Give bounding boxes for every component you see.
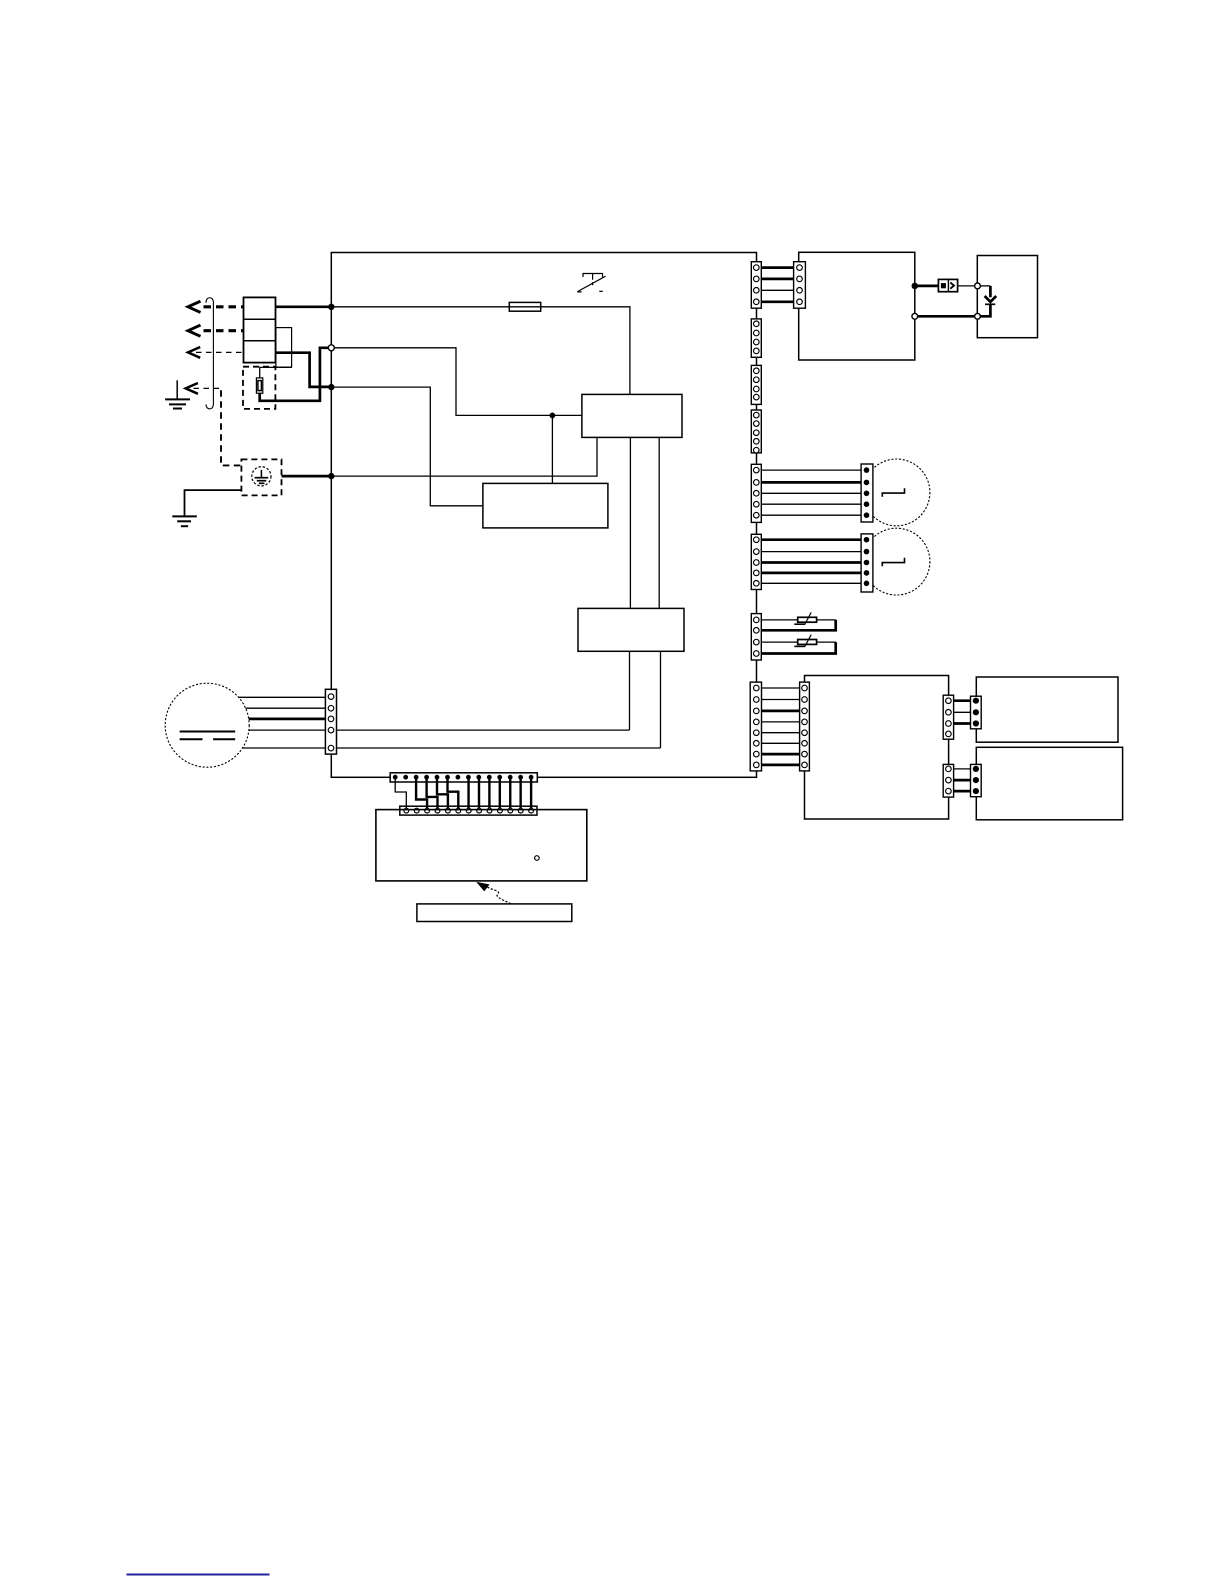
wire thermal fuse to spark unit xyxy=(958,285,978,287)
display header pads (open) xyxy=(404,808,534,813)
callout label box xyxy=(417,904,572,922)
node dot on ignition box edge xyxy=(912,283,919,290)
node dot PE on PCB edge xyxy=(328,473,334,479)
wire left dot to inner box2 left xyxy=(331,387,483,506)
wire ignition box to thermal fuse xyxy=(915,285,939,288)
wire line-fuse top to filter box xyxy=(260,367,292,378)
mating connector on ignition box xyxy=(794,262,806,309)
board-edge header strip (14 pads) xyxy=(390,773,537,782)
supply arrow 3 (N) xyxy=(188,347,244,358)
supply arrow 4 (PE) xyxy=(186,383,221,394)
spark gap branch xyxy=(978,286,997,316)
thermal cutout symbol T xyxy=(577,274,605,292)
dashed earth terminal box xyxy=(241,459,281,495)
connector CN-C on PCB edge xyxy=(751,365,761,404)
wires connector A to ignition box xyxy=(756,268,799,302)
ribbon wire 1 xyxy=(395,777,406,810)
ribbon wire 10 xyxy=(499,777,501,810)
wire mains L terminal to PCB xyxy=(276,305,332,308)
ribbon wire 5 xyxy=(437,777,448,810)
open node on ignition box edge xyxy=(912,313,918,319)
protective earth symbol PE xyxy=(252,467,271,486)
connector CN-G on PCB edge xyxy=(751,614,761,660)
supply arrow 1 (L) xyxy=(188,301,244,312)
display / keypad PCB box xyxy=(376,810,587,881)
callout squiggle leader xyxy=(488,887,511,904)
thermistor RT1 loop xyxy=(756,612,835,630)
wire ignition box to spark return xyxy=(915,315,978,318)
open node on spark box edge (bottom) xyxy=(975,313,981,319)
wires valve box to solenoid B3 xyxy=(948,701,976,724)
wire line-fuse loop to open node xyxy=(260,348,328,401)
thermal fuse TF xyxy=(938,279,957,291)
wire box3 to fan connector pin4 xyxy=(629,651,631,730)
interference filter box xyxy=(276,328,292,368)
wires connector E to motor M1 xyxy=(756,470,866,515)
main control PCB box xyxy=(331,253,756,778)
cable bundle bracket xyxy=(206,298,213,409)
ribbon wire 11 xyxy=(509,777,511,810)
ribbon wire 12 xyxy=(519,777,521,810)
wires connector F to motor M2 xyxy=(756,540,866,584)
wire junction to inner box2 top xyxy=(551,415,553,483)
inner box3 driver module xyxy=(578,608,684,651)
ribbon wire 13 xyxy=(530,777,532,810)
line fuse F2 xyxy=(256,378,262,393)
indicator hole on display PCB xyxy=(535,856,540,861)
motor M1 winding symbol xyxy=(882,488,904,496)
earth ground G2 xyxy=(172,516,197,526)
node dot L on PCB edge xyxy=(328,304,334,310)
wire earth box to ground G2 xyxy=(185,490,242,516)
fan motor M3 xyxy=(165,683,249,767)
wire inner box1 to box3 xyxy=(630,437,659,608)
node dot N on PCB edge xyxy=(328,384,334,390)
solenoid box B3 xyxy=(976,677,1118,742)
ribbon wire 7 xyxy=(467,777,469,810)
wire box3 to fan connector pin5 xyxy=(660,651,662,748)
inner box2 power supply module xyxy=(483,483,608,528)
ribbon wire 9 xyxy=(488,777,490,810)
connector CN-F2 on PCB edge xyxy=(751,534,761,589)
dashed PE lead to earth box xyxy=(221,390,241,465)
supply arrow 2 xyxy=(188,325,244,336)
footer blue rule xyxy=(127,1574,270,1576)
connector CN-E on PCB edge xyxy=(751,464,761,522)
connector K1 on solenoid B3 xyxy=(971,696,982,729)
open node on PCB edge xyxy=(328,345,334,351)
inner box1 relay module xyxy=(582,394,682,437)
mating connector on valve box xyxy=(800,682,810,771)
wire from open node to inner box1 left xyxy=(331,348,582,416)
fan motor connector CN-F xyxy=(325,689,336,754)
ribbon wire 8 xyxy=(478,777,480,810)
solenoid box B4 xyxy=(976,747,1122,820)
wires valve box to solenoid B4 xyxy=(948,769,976,791)
motor M2 connector xyxy=(861,534,873,592)
wire mains N terminal loop to PCB xyxy=(276,353,332,387)
ribbon wire 6 xyxy=(448,777,459,810)
motor M2 winding symbol xyxy=(882,558,904,566)
open node on spark box edge (top) xyxy=(975,283,981,289)
connector J2 on valve box edge xyxy=(943,764,953,797)
wire earth box to PCB xyxy=(282,475,332,478)
terminal block TB (3 poles) xyxy=(244,297,276,362)
fan motor wires to connector xyxy=(239,697,661,748)
gas valve box B2 xyxy=(805,676,949,820)
connector CN-D on PCB edge xyxy=(751,410,761,453)
spark electrode box TB2 xyxy=(977,256,1037,338)
connector CN-H on PCB edge xyxy=(750,682,761,771)
wire fuse line L to inner box1 xyxy=(331,307,630,395)
ignition box TB1 xyxy=(799,252,915,360)
junction node on box1 wire xyxy=(550,413,556,419)
ribbon wire 4 xyxy=(427,777,438,810)
header pads (filled) xyxy=(393,775,534,780)
motor M2 (stepper) xyxy=(863,528,930,595)
callout arrowhead xyxy=(476,882,489,892)
dashed enclosure around line fuse xyxy=(243,367,275,409)
ribbon wire 3 xyxy=(416,777,427,810)
connector CN-B on PCB edge xyxy=(751,319,761,357)
thermistor RT2 loop xyxy=(756,635,835,654)
fuse F1 xyxy=(509,302,540,311)
chassis ground G1 xyxy=(165,380,190,408)
motor M1 (stepper) xyxy=(863,459,930,526)
connector J1 on valve box edge xyxy=(943,695,953,739)
wires connector H to valve box xyxy=(756,688,804,765)
connector K2 on solenoid B4 xyxy=(971,764,982,796)
motor M1 connector xyxy=(861,464,873,522)
connector CN-A on PCB edge xyxy=(751,262,761,309)
DC symbol inside fan motor xyxy=(180,732,236,740)
display header strip (13 pads) xyxy=(400,806,537,815)
wire inner box1 bottom to left edge xyxy=(331,437,597,476)
